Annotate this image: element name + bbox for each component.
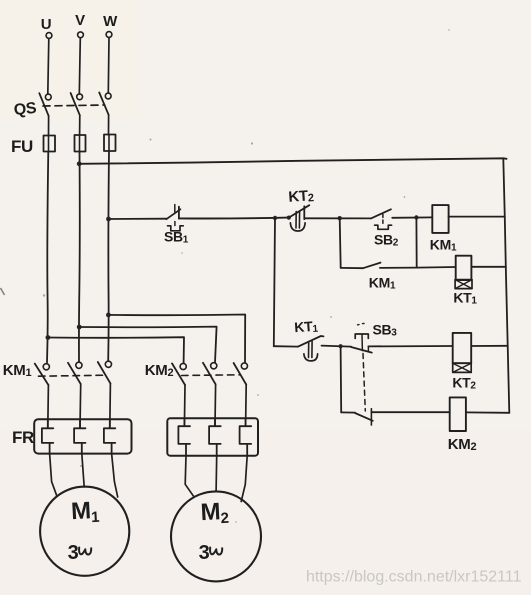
contact KT2 (NC, delayed opening) <box>287 205 310 231</box>
contact KM1 auxiliary (NO self-latch) <box>363 263 381 269</box>
wire KT2 coil to right rail <box>471 345 508 347</box>
wire KT1 contact to SB3 <box>322 346 352 347</box>
pushbutton SB2 (NO start) <box>371 209 392 229</box>
FR heater element 4 <box>178 418 190 456</box>
coil KM2 <box>450 397 466 431</box>
linkage SB3 dashed <box>363 354 365 412</box>
terminal U <box>46 33 52 39</box>
svg-text:W: W <box>103 13 118 30</box>
svg-text:U: U <box>41 16 52 33</box>
QS linkage dashed <box>43 105 105 106</box>
wire latch branch left vertical <box>340 218 341 268</box>
contactor KM1 main pole 3 <box>98 361 112 428</box>
wire rung2 left <box>274 345 298 347</box>
node: latch branch left <box>338 216 342 220</box>
wire W phase vertical (fuse to KM1 contact) <box>107 151 110 361</box>
FR heater element 5 <box>209 418 221 456</box>
wire control top rail <box>79 158 506 164</box>
wire SB2 to KM1 coil <box>392 216 432 218</box>
coil KM1 <box>432 205 448 233</box>
contact SB3 (NO) <box>341 409 373 425</box>
wire FR to M1 left <box>50 454 57 497</box>
contactor KM2 main pole 1 <box>172 363 186 426</box>
FR heater element 3 <box>104 419 115 453</box>
node: latch branch right <box>414 215 418 219</box>
coil KT1 (time relay with delay element) <box>455 256 472 289</box>
wire FR to M2 right <box>241 456 247 502</box>
fuse FU pole W <box>104 135 116 152</box>
wire SB3 branch vertical <box>340 346 343 412</box>
FR heater element 1 <box>42 419 53 453</box>
wire KT1 coil to right rail <box>471 266 505 268</box>
wire W branch to KM2 pole 3 <box>108 315 245 363</box>
fuse FU pole U <box>44 136 56 152</box>
contactor KM2 main pole 2 <box>203 363 217 426</box>
svg-text:FU: FU <box>11 137 33 156</box>
wire rung1 W to SB1 <box>109 218 167 220</box>
fuse FU pole V <box>75 135 86 152</box>
contact KT1 (NO, delayed closing) <box>298 336 323 361</box>
wire U terminal to QS <box>48 39 49 95</box>
motor M2 <box>171 491 261 581</box>
wire latch branch right vertical <box>415 218 417 268</box>
wire control right rail <box>503 159 509 413</box>
terminal W <box>106 32 112 38</box>
node: SB3 lower branch <box>339 344 343 348</box>
node: U branch to KM2 <box>46 335 51 340</box>
node: V branch to KM2 <box>77 325 82 330</box>
contactor KM1 main pole 2 <box>68 362 82 428</box>
svg-text:3: 3 <box>68 542 79 564</box>
KM2 linkage dashed <box>182 374 241 377</box>
pushbutton SB3 (NC contact + actuator) <box>351 324 372 353</box>
svg-text:V: V <box>75 12 85 29</box>
svg-text:FR: FR <box>12 428 34 447</box>
FR heater element 2 <box>74 419 85 453</box>
wire U branch to KM2 pole 1 <box>48 337 184 363</box>
wire V phase vertical (fuse to KM1 contact) <box>78 152 81 362</box>
wire V terminal to QS <box>79 38 80 94</box>
wire FR to M1 middle <box>82 454 84 487</box>
wire SB1 to KT2 contact <box>179 217 289 220</box>
svg-text:3: 3 <box>199 542 210 564</box>
switch QS pole V <box>71 93 83 135</box>
contactor KM2 main pole 3 <box>234 363 248 426</box>
wire KM1 aux to KT1 coil rung <box>380 266 456 269</box>
terminal V <box>78 32 84 38</box>
FR heater element 6 <box>240 418 252 456</box>
svg-text:https://blog.csdn.net/lxr15211: https://blog.csdn.net/lxr152111 <box>306 569 522 586</box>
node: W branch to KM2 <box>106 313 111 318</box>
wire FR to M2 left <box>185 456 193 497</box>
wire FR to M1 right <box>112 454 118 497</box>
relay FR box 2 <box>167 418 258 456</box>
wire SB3 NO to KM2 coil <box>371 411 449 413</box>
wire W terminal to QS <box>107 38 110 94</box>
svg-text:QS: QS <box>13 100 38 119</box>
coil KT2 (time relay with delay element) <box>453 333 472 373</box>
node: W to control rung 1 <box>106 217 111 222</box>
wire FR to M2 middle <box>215 456 218 492</box>
switch QS pole W <box>99 92 111 134</box>
wire KM1 coil to right rail <box>449 216 505 218</box>
wire branch down to rung 2 <box>274 218 275 346</box>
motor M1 <box>40 487 129 576</box>
node: V to control top rail <box>77 161 82 166</box>
relay FR box 1 <box>34 419 131 453</box>
wire latch rung (KM1 aux) left <box>341 267 363 269</box>
contactor KM1 main pole 1 <box>35 364 50 429</box>
node: branch to rung 2 <box>273 216 277 220</box>
switch QS pole U <box>39 93 51 135</box>
pushbutton SB1 (NC stop) <box>166 205 183 231</box>
wire SB3 NC to KT2 coil <box>368 345 452 347</box>
KM1 linkage dashed <box>39 375 107 376</box>
wire U phase vertical (fuse to KM1 contact) <box>47 152 48 363</box>
wire KM2 coil to right rail <box>466 411 509 413</box>
wire KT2 contact to SB2 <box>305 217 371 219</box>
wire V branch to KM2 pole 2 <box>79 327 216 363</box>
